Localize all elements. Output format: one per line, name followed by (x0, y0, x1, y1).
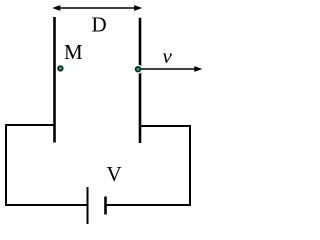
svg-text:D: D (92, 13, 107, 37)
svg-text:v: v (163, 44, 173, 68)
svg-text:V: V (107, 162, 122, 186)
svg-text:M: M (64, 40, 83, 64)
